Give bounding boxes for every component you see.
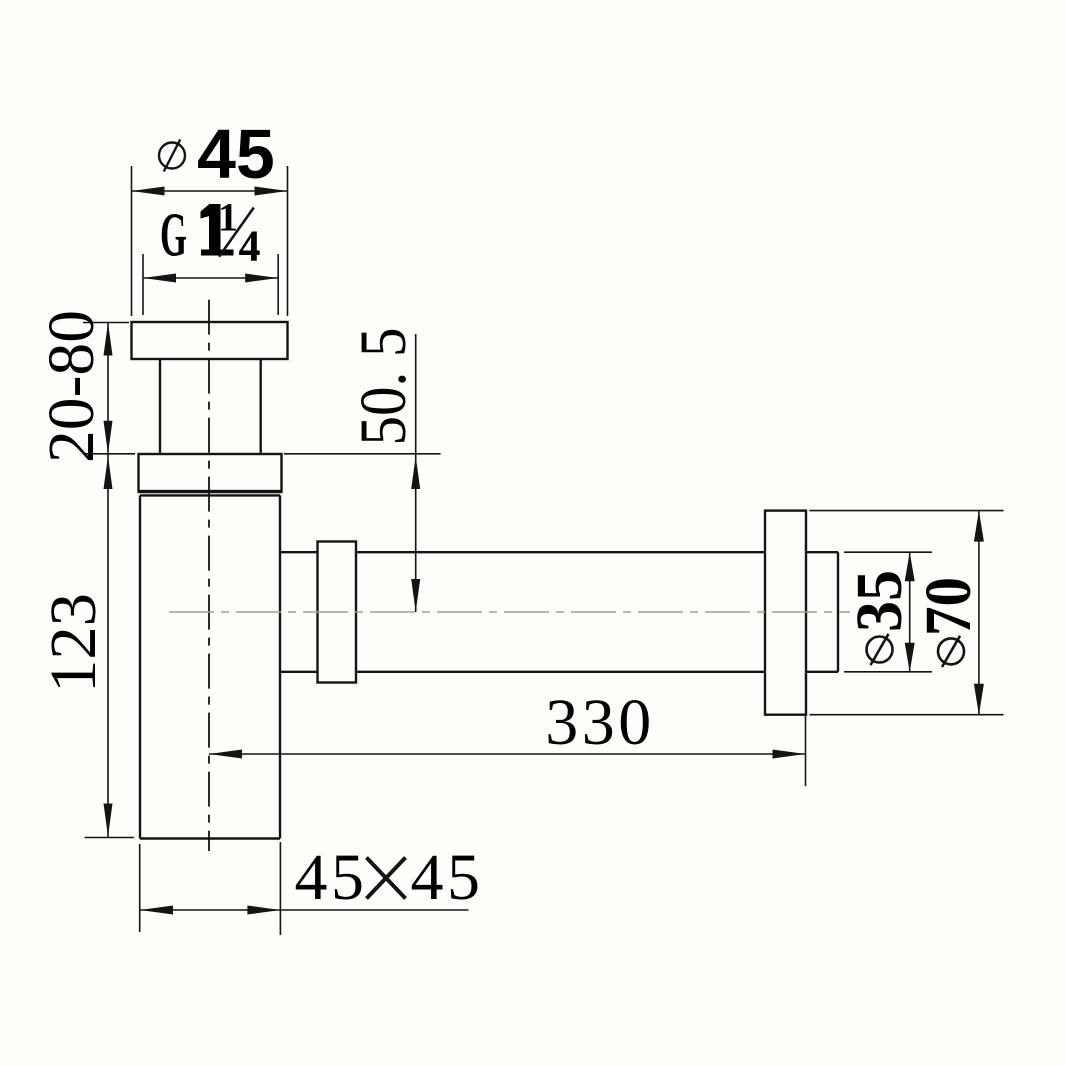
- svg-text:50. 5: 50. 5: [347, 328, 420, 446]
- svg-text:45: 45: [197, 115, 275, 193]
- svg-text:45: 45: [411, 841, 484, 914]
- svg-text:35: 35: [843, 570, 916, 632]
- svg-text:70: 70: [912, 577, 985, 636]
- svg-text:4: 4: [239, 222, 261, 271]
- svg-text:123: 123: [37, 593, 110, 693]
- svg-text:G: G: [160, 201, 187, 269]
- svg-text:45: 45: [295, 841, 368, 914]
- svg-text:330: 330: [545, 686, 655, 759]
- svg-text:20-80: 20-80: [35, 310, 108, 463]
